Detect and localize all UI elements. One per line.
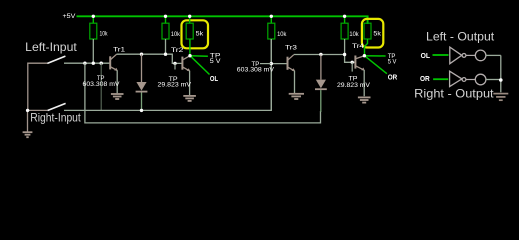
svg-text:+5V: +5V — [63, 13, 76, 20]
transistor Tr1 — [110, 47, 125, 94]
junction dots on Tr3 collector rail — [319, 53, 322, 56]
lamp LP2 Right-Output — [466, 74, 500, 85]
wire Tr3 collector rail — [294, 55, 356, 63]
wire bus2 from Tr1 base down and right to D2 — [85, 63, 321, 123]
svg-text:Right - Output: Right - Output — [414, 86, 494, 100]
diode D2 — [315, 55, 327, 113]
label TP 603.308 mV at Tr3 base — [237, 61, 275, 74]
svg-text:29.823 mV: 29.823 mV — [158, 82, 192, 89]
svg-text:Right-Input: Right-Input — [30, 111, 81, 125]
svg-text:Left - Output: Left - Output — [426, 29, 495, 43]
op-amp U2 inverter Right — [450, 71, 466, 86]
lamp LP1 Left-Output — [466, 50, 501, 61]
ground at Right-Input — [23, 110, 33, 137]
transistor Tr2 — [171, 47, 190, 95]
wire Left-Input to Tr1 base — [64, 62, 110, 64]
svg-text:OL: OL — [421, 51, 431, 60]
resistor R5 10k — [341, 17, 359, 54]
wire bus1 Right-Input to Tr3 base — [64, 39, 271, 110]
junction dot Tr3 base — [270, 62, 273, 65]
svg-text:10k: 10k — [171, 31, 181, 38]
wire TP pin to Tr3 base — [260, 63, 271, 65]
wire TP stub at Tr2 base — [174, 63, 176, 69]
ground at Tr1 emitter — [111, 94, 124, 99]
wire Tr1 collector rail — [117, 54, 183, 63]
node A junction dots on Tr1 base wire — [83, 62, 86, 65]
wire +5V power rail — [77, 16, 368, 24]
svg-text:Tr2: Tr2 — [171, 47, 184, 54]
resistor R1 10k — [90, 17, 108, 63]
junction dot at lamp outputs — [499, 78, 503, 82]
resistor R2 10k — [162, 17, 181, 54]
svg-text:5 V: 5 V — [210, 58, 222, 65]
junction dots on Tr1 collector rail — [140, 53, 143, 56]
junction dot D1 to bus1 — [140, 109, 143, 112]
svg-text:10k: 10k — [100, 30, 109, 37]
switch SW2 Right-Input — [28, 103, 66, 110]
diode D1 — [136, 54, 148, 110]
wire TP stub at Tr1 base down to bus1 — [100, 63, 102, 110]
wire OR to inverter U2 — [433, 78, 448, 80]
svg-text:29.823 mV: 29.823 mV — [337, 82, 371, 89]
resistor R6 5k — [364, 23, 382, 56]
transistor Tr3 — [271, 44, 297, 93]
ground at Tr4 emitter — [358, 97, 371, 102]
label TP 29.823 mV at Tr2 base — [158, 76, 192, 89]
svg-text:OL: OL — [210, 74, 219, 83]
svg-text:Tr4: Tr4 — [352, 43, 364, 50]
wire TP stub at Tr4 base — [351, 62, 353, 71]
svg-text:10k: 10k — [277, 31, 287, 38]
wire lamp outputs to ground — [500, 55, 502, 92]
wire OL to inverter U1 — [433, 54, 449, 56]
svg-text:OR: OR — [420, 74, 430, 83]
ground at Tr2 emitter — [183, 96, 196, 101]
transistor Tr4 — [352, 43, 365, 96]
svg-text:5 V: 5 V — [388, 58, 397, 65]
svg-text:Left-Input: Left-Input — [25, 40, 77, 54]
label TP 5 V at Tr4 collector — [388, 53, 397, 65]
node OL output at Tr2 collector — [188, 54, 209, 75]
op-amp U1 inverter Left — [450, 47, 466, 64]
svg-text:Tr1: Tr1 — [113, 47, 125, 54]
highlight box around R3 — [182, 20, 209, 48]
node OR output at Tr4 collector — [363, 54, 387, 74]
svg-text:5k: 5k — [373, 30, 381, 37]
label TP 5 V at Tr2 collector — [210, 53, 222, 66]
svg-text:Tr3: Tr3 — [285, 44, 297, 51]
resistor R4 10k — [268, 17, 287, 110]
svg-text:OR: OR — [388, 72, 398, 81]
switch SW1 Left-Input — [28, 56, 66, 110]
svg-text:10k: 10k — [349, 31, 359, 38]
svg-text:5k: 5k — [196, 30, 205, 37]
highlight box around R6 — [362, 19, 383, 48]
resistor R3 5k — [186, 17, 204, 56]
ground at Tr3 emitter — [289, 94, 304, 99]
junction dot Right-Input — [26, 109, 29, 112]
junction dots on +5V rail — [92, 15, 95, 18]
ground at output lamps — [493, 94, 508, 101]
svg-text:603.308 mV: 603.308 mV — [83, 81, 121, 88]
label TP 603.308 mV at Tr1 base — [83, 75, 121, 88]
svg-text:603.308 mV: 603.308 mV — [237, 66, 275, 73]
label TP 29.823 mV at Tr4 base — [337, 75, 371, 89]
